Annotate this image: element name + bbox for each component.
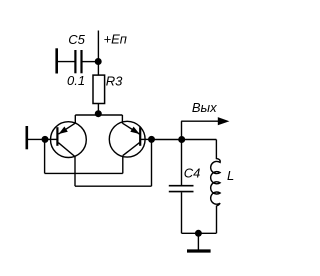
wire +Ep supply vertical <box>97 31 99 62</box>
wire R3 to node B <box>97 104 99 116</box>
wire node A to R3 <box>97 62 99 76</box>
wire VT1 collector down <box>74 157 76 187</box>
wire VT2 base to node D <box>141 138 152 140</box>
wire left terminal to node C <box>28 138 45 140</box>
node E output tap dot <box>178 136 185 143</box>
capacitor C4 plate 1 <box>169 185 194 187</box>
wire terminal to C5 <box>58 61 75 63</box>
cross-coupling wire VT2 collector to VT1 base node <box>45 172 123 174</box>
capacitor C5 plate 2 <box>80 50 82 73</box>
svg-text:0.1: 0.1 <box>67 73 85 88</box>
ground stem wire <box>197 233 199 250</box>
capacitor C5 plate 1 <box>74 50 76 73</box>
svg-text:C4: C4 <box>184 166 201 181</box>
terminal bar (common) far left <box>25 126 28 149</box>
wire rail to VT2 emitter <box>121 115 123 124</box>
svg-text:R3: R3 <box>106 73 123 88</box>
wire top rail corner down to L <box>215 140 217 160</box>
output arrowhead <box>218 117 230 125</box>
transistor VT2 emitter <box>123 123 140 134</box>
tank bottom rail wire <box>182 232 217 234</box>
wire rail to VT1 emitter <box>74 115 76 124</box>
node F ground dot <box>195 230 202 237</box>
node C junction dot <box>42 136 49 143</box>
transistor VT2 collector <box>123 143 140 156</box>
wire node E down to C4 <box>181 140 183 186</box>
transistor VT1 body circle <box>51 122 87 158</box>
terminal bar (common) at C5 <box>55 48 58 73</box>
transistor VT1 collector <box>58 143 75 157</box>
node B junction dot <box>95 110 102 117</box>
wire node D down <box>151 139 153 186</box>
wire output tap up <box>181 121 183 139</box>
cross-coupling wire VT1 collector to VT2 base node <box>75 185 152 187</box>
svg-text:L: L <box>227 168 234 183</box>
transistor VT2 body circle <box>109 121 145 157</box>
wire node C to VT1 base <box>45 138 57 140</box>
inductor L coil <box>211 159 221 206</box>
output arrow line <box>181 120 221 122</box>
emitter rail wire <box>75 114 122 116</box>
wire VT2 collector down <box>122 156 124 174</box>
transistor VT2 base bar <box>139 127 141 146</box>
wire C4 to bottom rail <box>181 192 183 233</box>
transistor VT1 emitter arrow <box>59 127 68 135</box>
node A junction dot <box>95 58 102 65</box>
svg-text:C5: C5 <box>68 32 85 47</box>
transistor VT2 emitter arrow <box>130 127 139 134</box>
ground bar <box>187 249 211 252</box>
capacitor C4 plate 2 <box>169 191 194 193</box>
wire C5 to node A <box>83 61 99 63</box>
resistor R3 <box>93 75 105 103</box>
svg-text:+Eп: +Eп <box>104 32 127 47</box>
tank top rail wire <box>152 139 217 141</box>
wire L to bottom rail <box>216 206 218 234</box>
node D junction dot <box>148 136 155 143</box>
svg-text:Вых: Вых <box>192 100 217 115</box>
transistor VT1 emitter <box>59 123 76 134</box>
transistor VT1 base bar <box>56 127 58 146</box>
wire node C down <box>44 139 46 173</box>
